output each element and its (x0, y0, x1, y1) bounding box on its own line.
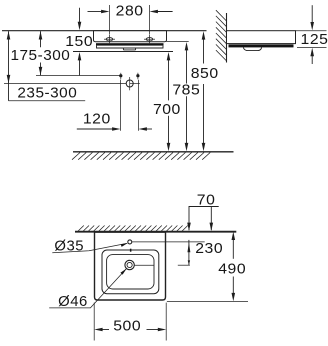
svg-text:785: 785 (172, 82, 200, 98)
dimension 500 arrows (98, 329, 109, 331)
svg-text:700: 700 (153, 101, 181, 117)
dimension 150 line (79, 8, 81, 24)
dimension 235-300 label underline (9, 100, 86, 102)
wall line plan view (75, 231, 236, 233)
dimension 280 extension lines (110, 5, 150, 34)
basin plan-view outline (95, 232, 166, 300)
supply point left (dot) (119, 74, 122, 77)
faucet hole right (front view) (144, 34, 155, 43)
svg-text:235-300: 235-300 (17, 85, 77, 102)
svg-text:280: 280 (116, 3, 144, 19)
leader O35 (52, 243, 127, 252)
dimension 280 arrows (88, 11, 104, 13)
svg-text:70: 70 (197, 192, 216, 208)
svg-text:500: 500 (113, 318, 141, 334)
dimension 70 (189, 207, 219, 231)
wall hatching side view (216, 10, 227, 61)
dimension 175-300 line (40, 31, 42, 47)
node basin front edge extension (167, 301, 248, 303)
dimension 120 extension lines (121, 80, 139, 131)
basin side-view trap bump (243, 48, 261, 51)
faucet hole left (front view) (104, 34, 115, 43)
svg-text:120: 120 (83, 111, 111, 127)
dimension 500 extension lines (93, 303, 95, 341)
dimension 230 line (188, 240, 190, 265)
dimension 120 arrows (77, 128, 117, 130)
dimension 490 line (232, 239, 234, 258)
svg-text:125: 125 (301, 31, 328, 47)
wall line side view (226, 13, 228, 63)
node lineE basin underside level (167, 41, 189, 43)
basin front-view drain tab (123, 48, 135, 50)
node hole level line plan (132, 241, 205, 243)
dimension 850 line (203, 38, 205, 64)
faucet hole plan view (128, 240, 132, 244)
bowl outer edge plan view (102, 250, 159, 294)
basin side-view slab (227, 31, 296, 44)
basin front-view shadow band (96, 43, 164, 45)
svg-text:Ø46: Ø46 (58, 294, 88, 310)
basin front-view outline (94, 31, 167, 42)
dimension 700 line (168, 59, 170, 100)
drain symbol front view (126, 80, 133, 87)
supply point right (dot) (136, 74, 139, 77)
node lineC supply level (36, 75, 121, 77)
svg-text:175-300: 175-300 (10, 47, 70, 64)
basin front-view underside strip (97, 46, 164, 48)
overflow tick plan view (130, 249, 132, 252)
bowl inner edge plan view (107, 255, 154, 289)
dimension 125 extension lines (296, 30, 327, 32)
svg-text:490: 490 (218, 261, 246, 277)
wall hatching plan view (78, 226, 188, 232)
floor line (73, 151, 234, 153)
drain plan view inner (127, 262, 132, 267)
dimension 785 line (186, 49, 188, 84)
svg-text:850: 850 (191, 66, 219, 82)
leader O46 (49, 269, 126, 308)
node drain level line plan (134, 264, 154, 266)
drain plan view outer (125, 260, 134, 269)
node lineD 150-below level (73, 51, 173, 53)
dimension 235-300 line (8, 31, 10, 101)
node lineB drain level (4, 83, 130, 85)
floor hatching (72, 153, 210, 160)
svg-text:230: 230 (195, 240, 223, 256)
svg-text:Ø35: Ø35 (54, 239, 84, 255)
basin side-view shadow band (229, 44, 294, 47)
dimension 125 arrows (311, 5, 313, 23)
node lineA basin rim level (2, 30, 207, 32)
